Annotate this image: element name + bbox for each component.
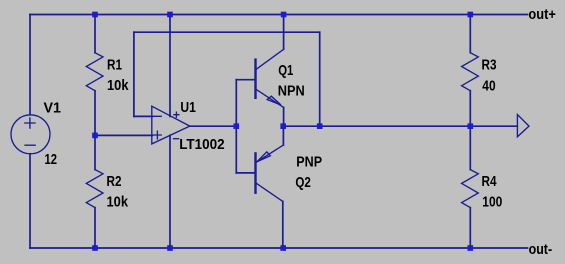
op-amp V+ marker (174, 112, 179, 117)
transistor Q1 base bar (254, 60, 256, 98)
wire R1 bottom to node A (94, 91, 96, 136)
svg-text:out+: out+ (528, 6, 556, 23)
node A divider midpoint (92, 133, 98, 139)
transistor Q1 emitter (256, 89, 284, 107)
transistor Q2 emitter (256, 145, 284, 162)
svg-text:NPN: NPN (278, 83, 305, 100)
svg-text:100: 100 (482, 193, 502, 210)
svg-text:40: 40 (482, 78, 495, 95)
transistor Q2 emitter arrow (257, 152, 270, 162)
transistor Q1 collector (256, 49, 284, 69)
node op-amp output / bases (234, 123, 240, 129)
svg-text:LT1002: LT1002 (179, 136, 225, 153)
wire base column Q1/Q2 (235, 80, 237, 173)
op-amp V- marker (174, 138, 179, 140)
wire node A to op-amp + input (95, 134, 153, 136)
wire left column upper (V1 to top rail) (29, 15, 31, 115)
node bottom rail / Q2 collector (280, 245, 286, 251)
wire R3 top stub (469, 15, 471, 53)
node top rail / R1 (92, 12, 98, 18)
node top rail / Q1 collector (281, 12, 287, 18)
wire left column lower (V1 to bottom rail) (29, 154, 31, 248)
wire Q1 base (236, 79, 255, 81)
wire R3 bottom stub (469, 91, 471, 127)
wire output rail middle (283, 125, 517, 127)
wire feedback top horizontal (134, 31, 320, 33)
svg-text:U1: U1 (180, 99, 196, 116)
wire R2 bottom stub (94, 208, 96, 248)
node R3 R4 / output rail (468, 123, 474, 129)
svg-text:PNP: PNP (296, 154, 322, 171)
svg-text:10k: 10k (107, 193, 129, 210)
svg-text:Q1: Q1 (278, 62, 293, 79)
wire node A to R2 (94, 135, 96, 169)
transistor Q2 collector (256, 183, 283, 201)
wire op-amp V+ supply column (169, 15, 171, 117)
node emitters / output rail (280, 123, 286, 129)
wire feedback left vertical (133, 32, 135, 116)
svg-text:R4: R4 (482, 173, 498, 190)
transistor Q2 base bar (254, 153, 256, 192)
svg-text:out-: out- (529, 241, 553, 258)
node bottom rail / R4 (468, 245, 474, 251)
wire op-amp V- supply column (169, 135, 171, 248)
wire Q2 base (236, 172, 255, 174)
svg-text:V1: V1 (44, 99, 62, 116)
node bottom rail / op-amp V- (167, 245, 173, 251)
wire feedback to inverting input (134, 115, 153, 117)
op-amp non-inverting input marker (154, 131, 162, 139)
svg-text:R2: R2 (107, 173, 122, 190)
resistor R1 (86, 53, 103, 91)
svg-text:12: 12 (45, 151, 58, 168)
wire feedback right vertical to output node (319, 32, 321, 126)
wire top rail out+ (30, 14, 528, 16)
node top rail / op-amp V+ (167, 12, 173, 18)
transistor Q1 emitter arrow (267, 96, 281, 105)
resistor R4 (462, 170, 479, 208)
op-amp inverting input marker (154, 115, 161, 117)
wire op-amp output to base node (190, 125, 237, 127)
svg-text:R3: R3 (482, 57, 497, 74)
wire R4 top stub (469, 126, 471, 169)
voltage source V1 (11, 115, 50, 154)
wire bottom rail out- (30, 247, 528, 249)
node bottom rail / R2 (92, 245, 98, 251)
svg-text:Q2: Q2 (295, 174, 311, 191)
resistor R2 (86, 170, 103, 208)
wire R4 bottom stub (469, 208, 471, 248)
op-amp U1 body (152, 106, 190, 144)
node top rail / R3 (468, 12, 474, 18)
svg-text:10k: 10k (107, 77, 129, 94)
resistor R3 (462, 53, 479, 91)
wire divider column top stub (94, 15, 96, 53)
svg-text:R1: R1 (107, 57, 122, 74)
output port arrow (517, 115, 529, 137)
node feedback / output rail (317, 123, 323, 129)
